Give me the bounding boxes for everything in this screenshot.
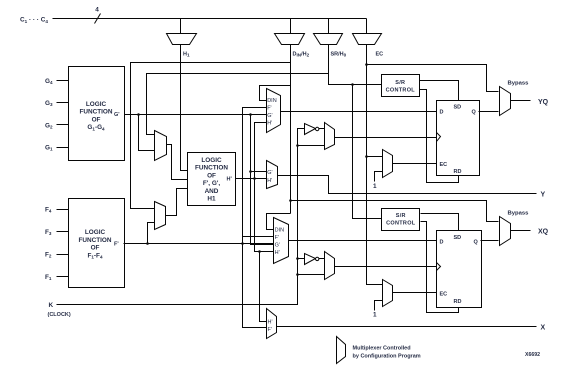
wire: bus drop to EC mux (366, 19, 368, 34)
node C1-C4 label (20, 17, 48, 25)
wire: F' net (124, 108, 274, 328)
svg-text:H1: H1 (183, 52, 190, 58)
mux bypass FF1 (500, 81, 530, 116)
svg-text:EC: EC (440, 292, 448, 298)
wire: upper D line to FF1 and bypass tap (281, 111, 437, 113)
wire: X net (277, 326, 537, 328)
node F3 input (45, 229, 69, 236)
junction dots (137, 63, 368, 276)
svg-text:F': F' (267, 106, 271, 112)
flip-flop FF2 (437, 231, 482, 308)
svg-text:OF: OF (91, 245, 100, 252)
wire: upper H-input mux output to H box (167, 145, 188, 180)
svg-text:EC: EC (376, 52, 384, 58)
svg-text:RD: RD (454, 169, 462, 175)
wire: YQ output (511, 100, 531, 102)
svg-text:1: 1 (373, 312, 377, 319)
svg-text:H1: H1 (207, 196, 216, 203)
S/R control box FF2 (382, 209, 420, 231)
mux bypass FF2 (500, 211, 530, 246)
svg-text:(CLOCK): (CLOCK) (48, 312, 71, 318)
mux G'/H' (Y output select) (267, 161, 278, 189)
svg-text:D: D (440, 240, 444, 246)
svg-text:H': H' (227, 177, 233, 183)
svg-text:by Configuration Program: by Configuration Program (353, 354, 421, 360)
svg-text:4: 4 (95, 7, 99, 14)
wire: FF1 RD line (420, 90, 459, 183)
svg-text:DIN/H2: DIN/H2 (293, 52, 310, 58)
inverter (FF2 clock) (305, 254, 325, 265)
svg-text:LOGIC: LOGIC (86, 101, 107, 108)
wire: H' net (236, 123, 274, 322)
svg-text:F': F' (268, 327, 272, 333)
svg-text:CONTROL: CONTROL (386, 88, 416, 94)
svg-text:DIN: DIN (275, 228, 285, 234)
wire: FF2 RD line (421, 222, 459, 313)
svg-text:YQ: YQ (538, 99, 549, 106)
svg-text:SD: SD (454, 105, 462, 111)
svg-text:DIN: DIN (267, 98, 277, 104)
svg-text:Multiplexer Controlled: Multiplexer Controlled (353, 346, 411, 352)
svg-text:FUNCTION: FUNCTION (78, 237, 111, 244)
svg-text:OF: OF (92, 116, 101, 123)
svg-text:X6692: X6692 (525, 352, 540, 358)
svg-text:H': H' (275, 250, 280, 256)
mux upper DIN/F'/G'/H' (D-input select, FF1) (267, 89, 281, 133)
svg-text:S/R: S/R (395, 80, 405, 86)
wire: FF1 EC line (393, 163, 437, 165)
wire: lower H-input mux output to H box (166, 189, 188, 216)
wire: FF1 Q to bypass mux (479, 111, 499, 113)
svg-text:XQ: XQ (538, 228, 549, 235)
wire: bus drop to DIN/H2 mux (290, 19, 292, 34)
wire: lower D line to FF2 and lower bypass line (289, 201, 499, 241)
wire: FF2 SD line (421, 214, 459, 231)
mux lower DIN/F'/G'/H' (D-input select, FF2) (274, 218, 289, 264)
svg-text:C1 · · · C4: C1 · · · C4 (20, 17, 48, 25)
svg-text:CONTROL: CONTROL (386, 221, 416, 227)
svg-text:S/R: S/R (396, 213, 406, 219)
wire: FF2 EC line (393, 292, 437, 294)
wire: FF2 Q to bypass mux (481, 240, 499, 242)
node F2 input (45, 252, 69, 259)
svg-text:F': F' (114, 242, 119, 248)
mux DIN/H2 (top) (275, 34, 310, 58)
mux SR/H0 (top) (314, 34, 347, 58)
mux H1 (top) (167, 34, 197, 58)
svg-text:EC: EC (440, 162, 448, 168)
wire: G' net (125, 115, 274, 245)
node F1 input (45, 274, 69, 281)
mux EC/1 (FF2 enable) (373, 280, 393, 319)
svg-text:Y: Y (541, 191, 546, 198)
logic function box G1-G4 (69, 67, 125, 161)
node G1 input (45, 145, 69, 152)
svg-text:G': G' (275, 243, 280, 249)
svg-text:OF: OF (207, 172, 216, 179)
svg-text:H': H' (267, 178, 272, 184)
wire: XQ output (511, 230, 531, 232)
wire: H1 net (mux output down into H box, branch right at y64.5) (181, 45, 188, 171)
svg-text:F', G',: F', G', (203, 180, 220, 187)
node G4 input (45, 78, 69, 85)
svg-text:Bypass: Bypass (508, 211, 530, 217)
wire: K net riser with branches (57, 129, 325, 305)
wire: Y net (278, 176, 537, 194)
wire: FF1 SD line (420, 81, 459, 101)
mux clock polarity FF2 (325, 252, 335, 280)
svg-text:F': F' (275, 235, 279, 241)
logic function box F1-F4 (69, 199, 125, 288)
svg-text:H': H' (267, 121, 272, 127)
svg-text:1: 1 (373, 183, 377, 190)
logic function box F' G' AND H1 (188, 153, 236, 206)
svg-text:AND: AND (205, 188, 219, 195)
mux EC/1 (FF1 enable) (373, 150, 393, 191)
inverter (FF1 clock) (305, 124, 325, 135)
svg-text:Q: Q (472, 110, 477, 116)
wire: EC net (drop, branches to 1-muxes and upper bypass) (367, 45, 499, 285)
node G3 input (45, 100, 69, 107)
svg-text:K: K (49, 302, 54, 309)
node G2 input (45, 123, 69, 130)
svg-text:LOGIC: LOGIC (201, 157, 222, 164)
legend: multiplexer symbol (337, 337, 421, 364)
svg-text:Q: Q (474, 240, 479, 246)
mux lower H-input (F'/DIN) (155, 202, 166, 230)
wire: C1-C4 bus (53, 18, 367, 20)
svg-text:SD: SD (454, 235, 462, 241)
svg-text:FUNCTION: FUNCTION (195, 165, 228, 172)
wire: DIN/H2 net (vertical drop, y62 branch to lower H-input mux, hooks into both DIN muxes, branch to lower bypass) (131, 45, 291, 230)
wire: FF2 clock line (335, 266, 437, 268)
svg-text:H': H' (268, 320, 273, 326)
node K clock input (48, 302, 71, 318)
svg-text:FUNCTION: FUNCTION (79, 109, 112, 116)
mux EC (top) (353, 34, 384, 58)
svg-text:G': G' (267, 113, 272, 119)
svg-text:G': G' (114, 112, 120, 118)
S/R control box FF1 (382, 75, 420, 97)
flip-flop FF1 (437, 101, 480, 176)
svg-text:LOGIC: LOGIC (85, 229, 106, 236)
svg-text:RD: RD (454, 299, 462, 305)
mux H'/F' (X output select) (267, 309, 277, 339)
bus width slash 4 (95, 7, 101, 24)
svg-text:D: D (440, 110, 444, 116)
svg-text:G': G' (267, 170, 272, 176)
mux upper H-input (G'/SR) (155, 131, 167, 161)
wire: SR/H0 net (drop to S/R controls, y74 branch to upper H-input mux) (147, 45, 382, 219)
svg-text:SR/H0: SR/H0 (331, 52, 347, 58)
wire: bus drop to SR/H0 mux (328, 19, 330, 34)
svg-text:X: X (541, 324, 546, 331)
node F4 input (45, 207, 69, 214)
wire: FF1 clock line (335, 137, 437, 139)
svg-text:Bypass: Bypass (508, 81, 530, 87)
wire: bus drop to H1 mux (180, 19, 182, 34)
mux clock polarity FF1 (325, 123, 335, 150)
